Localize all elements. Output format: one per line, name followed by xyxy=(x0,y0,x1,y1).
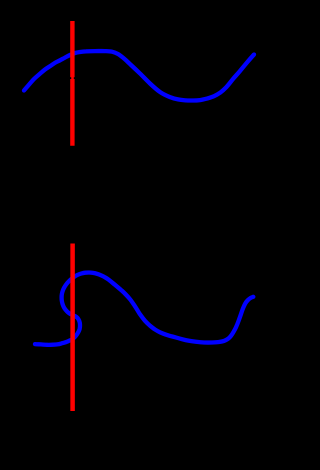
bottom graph: red vertical line xyxy=(70,244,75,412)
top graph: x-axis notch across red line xyxy=(70,77,72,79)
top graph: red vertical line xyxy=(70,21,74,146)
bottom graph: blue curve (fails vertical line test) xyxy=(35,273,253,345)
top graph: blue curve (function passing vertical line test) xyxy=(24,51,254,100)
